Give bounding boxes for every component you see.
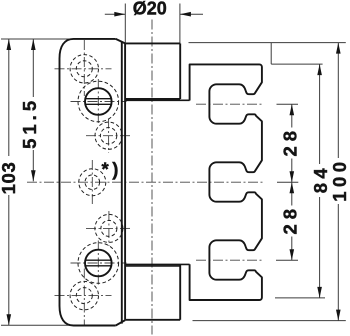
svg-text:100: 100 [329, 157, 350, 201]
centerline hole3 cross [86, 135, 130, 137]
arrow dia20 right [180, 12, 191, 17]
centerline hole4 vertical [91, 160, 93, 205]
hole H2 countersink dashed circle [78, 81, 119, 122]
centerline hole5 cross [86, 227, 130, 229]
centerline hole2 vertical [97, 79, 99, 124]
centerline hole7 cross [55, 295, 112, 297]
hole H6 countersink dashed circle [78, 243, 119, 284]
arrow 103 down [7, 314, 12, 325]
extension line bottom of leaf [1, 324, 76, 326]
arrow 28top up [290, 104, 295, 115]
leaf bottom bevel [116, 320, 125, 325]
dim line 51.5 [32, 39, 34, 97]
centerline slot1 row [196, 103, 264, 105]
dia20 extension lines [124, 4, 126, 44]
arrow 100 down [336, 310, 341, 321]
hole H1 dashed circles [70, 55, 98, 83]
extension step vertical (84 dim) [270, 43, 272, 65]
hole H5 dashed circles [95, 214, 123, 242]
frame profile bottom line (100 dim) [193, 320, 346, 322]
arrow 103 up [7, 39, 12, 50]
dim line dia20 left shaft [105, 13, 126, 15]
frame comb outline [190, 64, 262, 300]
arrow 28top down [290, 171, 295, 182]
hole H4 dashed circles [79, 169, 106, 196]
hole H3 dashed circles [95, 122, 122, 149]
svg-text:103: 103 [0, 162, 19, 195]
leaf right edge [121, 42, 123, 324]
extension line slot3 center right [276, 259, 298, 261]
centerline hole6 vertical [97, 241, 99, 286]
dim line 100 [337, 43, 339, 158]
dim line 84 [319, 64, 321, 164]
extension line slot1 center right [277, 103, 299, 105]
svg-text:*): *) [102, 158, 122, 179]
hole H7 dashed circles [70, 281, 98, 309]
dim line 28 top [291, 104, 293, 127]
arrow 84 down [317, 287, 322, 298]
extension line comb top (84 dim) [271, 63, 322, 65]
arrow 28bot down [290, 249, 295, 260]
svg-text:Ø20: Ø20 [133, 0, 167, 19]
barrel right edge lower [179, 265, 181, 320]
arrow 100 up [336, 43, 341, 54]
centerline slot3 row [196, 259, 264, 261]
frame profile top line (100 dim) [189, 42, 346, 44]
arrow 51.5 up [31, 39, 36, 50]
centerline hole1 cross [55, 68, 112, 70]
dim line dia20 right shaft [180, 13, 203, 15]
svg-text:51.5: 51.5 [19, 97, 40, 149]
arrow 28bot up [290, 182, 295, 193]
leaf outline [60, 39, 126, 326]
arrow 51.5 down [31, 170, 36, 181]
svg-text:28: 28 [280, 204, 301, 235]
dim line 28 bottom [291, 182, 293, 205]
svg-text:28: 28 [280, 126, 301, 157]
arrow dia20 left [114, 12, 125, 17]
dim line 103 [8, 39, 10, 156]
barrel outline [125, 43, 180, 319]
centerline hole row 6 [71, 262, 127, 264]
arrow 84 up [317, 64, 322, 75]
hole H6 bore circle [85, 250, 112, 277]
centerline pivot row [27, 181, 264, 183]
centerline hole row 2 [71, 101, 127, 103]
extension line pivot center right [277, 181, 298, 183]
knuckle joint bottom [125, 263, 190, 265]
svg-text:84: 84 [310, 164, 331, 193]
knuckle joint top [125, 99, 190, 266]
hole H2 bore circle [85, 88, 112, 276]
extension line comb bottom (84 dim) [275, 297, 325, 299]
centerline barrel axis [151, 20, 153, 335]
dashed hole circles [70, 55, 123, 310]
hole H2 chord lines [85, 98, 111, 100]
barrel right edge upper [179, 43, 181, 99]
hole H6 chord lines [85, 259, 111, 261]
centerlines [27, 20, 264, 335]
leaf top bevel [116, 39, 125, 44]
